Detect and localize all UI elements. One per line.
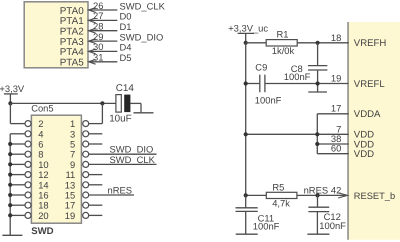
junction GND bus pin 16 [8,193,12,197]
Con5 pin 5 (right) [83,141,89,147]
Con5 pin 13 (right) [83,182,89,188]
junction GND bus pin 14 [8,183,12,187]
Con5 pin 11 (right) [83,172,89,178]
Con5 pin 12 (left) [25,172,31,178]
+3,3V_uc rail (vertical) [245,43,247,196]
wire Con5 pin 20 to GND bus [10,214,25,216]
svg-text:PTA2: PTA2 [60,27,84,38]
junction +3,3V_uc rail top [244,41,248,45]
Con5 pin 8 (left) [25,151,31,157]
capacitor C12 [317,195,319,207]
wire stub Con5 pin 11 [89,174,103,176]
svg-text:100nF: 100nF [284,71,311,82]
pin arrow PTA2 [89,28,96,33]
wire rail to VDD pins [246,133,318,135]
pin arrow PTA1 [89,18,96,23]
wire VDD pin 60 [317,153,348,155]
svg-text:100nF: 100nF [253,221,280,232]
capacitor C8 [317,43,319,66]
svg-text:SWD: SWD [31,226,53,237]
wire VDD pin 38 [317,143,348,145]
Con5 pin 19 (right) [83,212,89,218]
VDD distribution vertical [316,114,318,154]
capacitor C11 [245,195,247,207]
wire stub Con5 pin 17 [89,204,103,206]
ground (C12) [307,233,329,235]
svg-text:nRES: nRES [304,184,329,195]
wire pin 30 [89,50,118,52]
svg-text:D1: D1 [120,21,132,32]
wire VDD pin 7 [317,133,348,135]
junction node VREFH [316,41,320,45]
svg-text:60: 60 [331,143,341,154]
svg-text:18: 18 [331,32,341,43]
junction node nRES [315,193,319,197]
ground (C8) [308,91,327,93]
Con5 pin 3 (right) [83,131,89,137]
junction GND bus pin 18 [8,203,12,207]
Con5 pin 2 (left) [25,121,31,127]
wire Con5 pin 8 to GND bus [10,153,25,155]
Con5 pin 4 (left) [25,131,31,137]
junction C9 rail [244,81,248,85]
svg-text:19: 19 [65,210,75,221]
wire +3,3V down to Con5 pin 2 [9,103,11,123]
Con5 pin 10 (left) [25,161,31,167]
svg-text:10uF: 10uF [109,113,132,124]
Con5 pin 20 (left) [25,212,31,218]
pin arrow PTA3 [89,39,96,44]
junction rail VDD [244,132,248,136]
ground (Con5) [2,234,22,236]
svg-text:PTA0: PTA0 [60,6,84,17]
wire Con5 pin 4 to GND bus [10,133,25,135]
wire Con5 pin 1 riser to +3,3V [101,103,103,123]
svg-text:VDDA: VDDA [354,109,381,120]
svg-text:D5: D5 [120,52,132,63]
ground (C11) [236,233,258,235]
ground (C14) [134,112,154,114]
wire stub Con5 pin 19 [89,214,103,216]
svg-text:19: 19 [331,73,341,84]
wire Con5 pin 12 to GND bus [10,174,25,176]
Con5 pin 6 (left) [25,141,31,147]
wire pin 31 [89,61,118,63]
svg-text:+3,3V: +3,3V [0,83,25,94]
wire stub Con5 pin 5 [89,143,103,145]
wire +3,3V to C14 [10,102,116,104]
wire pin 28 [89,30,118,32]
svg-text:SWD_CLK: SWD_CLK [120,0,166,11]
svg-text:C9: C9 [255,62,267,73]
wire net nRES (Con5 pin 15) [89,194,134,196]
wire VDDA pin 17 [317,113,348,115]
wire stub Con5 pin 13 [89,184,103,186]
wire Con5 pin 16 to GND bus [10,194,25,196]
svg-text:17: 17 [331,103,341,114]
capacitor C14 (polarized) [116,95,121,113]
junction GND bus pin 8 [8,152,12,156]
Con5 pin 16 (left) [25,192,31,198]
pin arrow PTA5 [89,59,96,64]
pin arrow PTA4 [89,49,96,54]
wire R1 to VREFH pin 18 [297,42,349,44]
svg-text:31: 31 [93,52,103,63]
Con5 pin 14 (left) [25,182,31,188]
svg-text:+3,3V_uc: +3,3V_uc [228,22,268,33]
GND bus (Con5 even pins) [9,134,11,235]
wire pin 26 [89,9,118,11]
wire net SWD_DIO (Con5 pin 7) [89,153,157,155]
wire stub Con5 pin 3 [89,133,103,135]
Con5 pin 18 (left) [25,202,31,208]
junction GND bus pin 12 [8,173,12,177]
svg-text:4,7k: 4,7k [272,198,290,209]
svg-text:SWD_CLK: SWD_CLK [110,154,156,165]
svg-text:D4: D4 [120,42,132,53]
junction node VREFL [316,81,320,85]
svg-text:VDD: VDD [354,149,374,160]
wire Con5 pin 6 to GND bus [10,143,25,145]
junction GND bus pin 10 [8,162,12,166]
junction GND bus pin 20 [8,213,12,217]
svg-text:20: 20 [38,210,48,221]
Con5 pin 15 (right) [83,192,89,198]
svg-text:nRES: nRES [108,184,133,195]
Con5 pin 7 (right) [83,151,89,157]
svg-text:100nF: 100nF [319,220,346,231]
pin arrow PTA0 [89,8,96,13]
svg-text:Con5: Con5 [31,102,53,113]
svg-text:30: 30 [93,41,103,52]
wire pin 29 [89,40,118,42]
capacitor C9 [246,83,260,85]
wire Con5 pin 18 to GND bus [10,204,25,206]
wire stub Con5 pin 1 [89,123,103,125]
svg-text:PTA5: PTA5 [60,58,84,69]
svg-text:28: 28 [93,21,103,32]
wire C14 to ground [130,102,141,104]
svg-text:RESET_b: RESET_b [354,191,395,201]
MCU power block (body) [347,22,400,240]
junction VDD pin 7 [315,132,319,136]
svg-text:C14: C14 [116,83,135,94]
resistor R1 [246,42,267,44]
svg-text:VREFH: VREFH [354,38,387,49]
wire pin 27 [89,19,118,21]
wire R5 to RESET_b [297,194,348,196]
MCU port block PTA (body) [24,2,88,68]
svg-text:VREFL: VREFL [354,79,386,90]
resistor R5 [246,194,267,196]
wire net SWD_CLK (Con5 pin 9) [89,163,157,165]
wire Con5 pin 14 to GND bus [10,184,25,186]
wire to VREFL pin 19 [318,83,349,85]
junction VDD pin 38 [315,142,319,146]
svg-text:R1: R1 [277,29,289,40]
junction rail R5 [244,193,248,197]
Con5 pin 1 (right) [83,121,89,127]
svg-text:PTA4: PTA4 [60,47,84,58]
junction +3,3V rail [8,101,12,105]
svg-text:R5: R5 [272,181,284,192]
svg-text:26: 26 [93,0,103,11]
pin arrow RESET_b [338,193,347,198]
svg-text:100nF: 100nF [255,94,282,105]
Con5 pin 9 (right) [83,161,89,167]
wire Con5 pin 10 to GND bus [10,163,25,165]
svg-text:1k/0k: 1k/0k [272,45,295,56]
Con5 pin 17 (right) [83,202,89,208]
junction GND bus pin 6 [8,142,12,146]
junction C14 / Con5 pin1 [100,101,104,105]
